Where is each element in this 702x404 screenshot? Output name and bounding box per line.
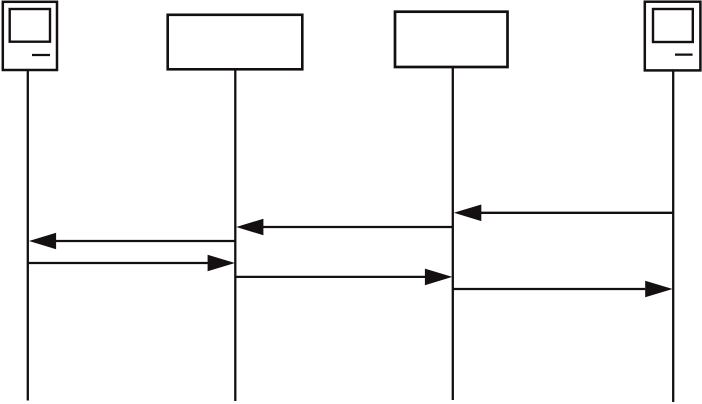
node: client computer icon (left actor) bbox=[3, 2, 57, 70]
lifeline 1 (client) bbox=[27, 71, 29, 401]
wire: message arrow A (server to proxy 2, leftward) bbox=[454, 205, 673, 222]
lifeline 2 (proxy 1) bbox=[234, 69, 236, 401]
node: proxy box 2 bbox=[395, 12, 508, 67]
wire: message arrow C (proxy 1 to client, leftward) bbox=[29, 233, 235, 250]
wire: message arrow F (proxy 2 to server, rightward) bbox=[453, 281, 673, 298]
lifeline 4 (server) bbox=[672, 71, 674, 402]
wire: message arrow B (proxy 2 to proxy 1, leftward) bbox=[236, 219, 453, 236]
lifeline 3 (proxy 2) bbox=[452, 67, 454, 400]
node: server computer icon (right actor) bbox=[645, 2, 701, 71]
node: proxy box 1 bbox=[168, 15, 303, 70]
wire: message arrow E (proxy 1 to proxy 2, rightward) bbox=[235, 269, 452, 286]
wire: message arrow D (client to proxy 1, rightward) bbox=[28, 255, 235, 272]
